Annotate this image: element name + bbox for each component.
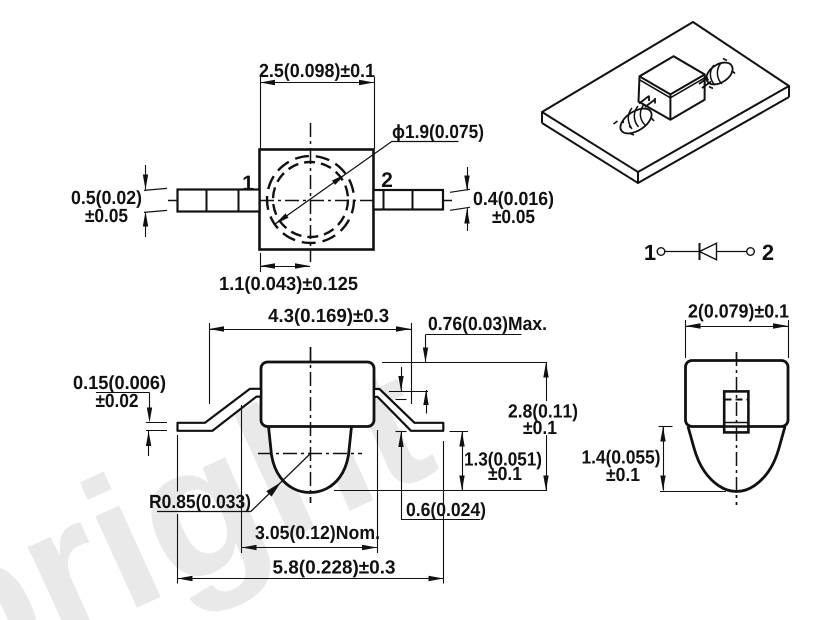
end view centerline redraw [736, 352, 738, 505]
dim 0.5 text [72, 190, 141, 208]
dim 2 extension lines [685, 320, 687, 358]
iso left solder pad [616, 104, 656, 139]
phi 1.9 leader underline [392, 141, 459, 143]
iso board corner verticals [542, 86, 789, 183]
dim 5.8 extension lines [177, 435, 179, 492]
schematic pin 2 label [763, 245, 774, 260]
iso LED body sides [639, 56, 705, 120]
dim 2.8 bottom arrow [543, 476, 548, 491]
body bottom line through lead [724, 425, 748, 427]
dim 4.3 text [268, 308, 388, 326]
iso board bottom edges [542, 97, 789, 183]
dim 5.8 left arrow [178, 576, 193, 581]
body top extension line [382, 362, 547, 364]
end view dome lens [688, 427, 785, 492]
dim 2.5 text [260, 63, 375, 81]
lead rect dashed line [725, 399, 749, 401]
dim 0.6 leader [401, 432, 403, 519]
left lead (pin 1) outline [178, 190, 260, 212]
dim 1.1 right arrow [295, 263, 310, 268]
dim 0.4 ticks [450, 189, 470, 192]
dim 0.5 lower arrow [143, 212, 148, 227]
side view right lead [374, 389, 443, 431]
dim 3.05 line [242, 547, 378, 549]
dim 0.15 ticks [146, 422, 167, 424]
diode cathode bar [699, 243, 701, 260]
iso left pad dots [622, 121, 624, 123]
dim 1.1 text [220, 276, 357, 294]
end view lead rectangle [724, 391, 748, 432]
dim 1.4 top arrow [660, 427, 665, 442]
dim 0.76 upper arrow [425, 335, 427, 363]
dim 0.15 leader [96, 392, 150, 394]
dim 2.8 top arrow [543, 363, 548, 378]
dim 2.8 line [546, 363, 548, 491]
dim 0.4 upper arrow [464, 176, 469, 191]
lead-top arrow [401, 367, 403, 391]
iso LED body front edge [669, 94, 671, 119]
dim 0.6 text [407, 502, 485, 520]
dim 0.5 arrows [145, 165, 147, 190]
dim 0.6 arrow [398, 432, 403, 447]
dim 3.05 extension lines [241, 405, 243, 553]
dim 3.05 text [255, 525, 378, 543]
dim 0.15 lower arrow [148, 431, 150, 456]
side view dome lens [269, 427, 352, 493]
dim 0.76 text [429, 316, 546, 334]
dim 1.1 left arrow [260, 263, 275, 268]
dim 0.15 upper arrow [147, 408, 152, 423]
iso board top face [542, 22, 789, 172]
dim 5.8 right arrow [429, 576, 444, 581]
end view vertical centerline [736, 352, 738, 505]
dim 3.05 right arrow [362, 545, 377, 550]
dim 2.8 text [505, 401, 581, 435]
dim 5.8 line [178, 578, 444, 580]
schematic pin 2 terminal circle [747, 248, 755, 256]
top view body square [260, 150, 374, 250]
dim 0.15 text [74, 375, 165, 393]
iso left pad stripes [628, 105, 645, 130]
side view dome horizontal centerline [258, 453, 362, 455]
dim 0.4 arrows [467, 167, 469, 191]
lead top extension line [389, 391, 428, 393]
iso right lead strip [699, 78, 711, 89]
dim 4.3 line [209, 329, 411, 331]
dim 1.3 bottom arrow [459, 476, 464, 491]
dim 4.3 extension lines [209, 323, 211, 404]
R0.85 leader line [251, 454, 311, 512]
iso right pad stripes [710, 63, 722, 85]
schematic wire left [665, 251, 699, 253]
dim 1.3 top arrow [459, 432, 464, 447]
side view vertical centerline redraw [310, 347, 312, 503]
dim 0.5 upper arrow [143, 175, 148, 190]
iso right solder pad [702, 58, 736, 89]
phi 1.9 label [393, 124, 483, 142]
right lead division lines [383, 190, 385, 210]
R0.85 arrow [266, 482, 281, 497]
dim 2.5 line [260, 82, 374, 84]
diode triangle [700, 243, 717, 260]
dim 1.4 bottom extension to dome [660, 491, 726, 493]
lens outer dashed circle [267, 156, 354, 243]
dim 0.4 lower arrow [464, 209, 469, 224]
dim 5.8 text [273, 560, 395, 578]
dim 1.1 extension line [260, 253, 262, 272]
dim 1.3 line [462, 432, 464, 491]
dim 2 right arrow [773, 323, 788, 328]
watermark "bright" [0, 365, 439, 620]
dim 2 text [689, 304, 789, 322]
dim 2 left arrow [686, 323, 701, 328]
dim 0.76 lower arrow [426, 390, 428, 414]
lead bottom tick right [450, 431, 469, 433]
left lead division lines [206, 190, 208, 212]
dim 1.1 line [260, 266, 310, 268]
dim 2.5 right arrow [359, 80, 374, 85]
end view body [686, 361, 789, 427]
top view vertical centerline [310, 123, 312, 265]
side view left lead [178, 389, 262, 431]
dim 2.5 left arrow [260, 80, 275, 85]
iso left lead strip [639, 96, 655, 108]
dim 1.4 bottom arrow [660, 476, 665, 491]
iso right pad corner marks [706, 59, 736, 89]
lead exit lower tick [396, 399, 407, 401]
dome bottom extension line [334, 490, 547, 492]
iso LED body top face [640, 56, 705, 94]
phi leader arrow lower-left [275, 213, 289, 224]
pin 1 label [244, 176, 254, 190]
top view horizontal centerline [168, 200, 452, 202]
dim 2.5 extension lines [260, 77, 262, 149]
pin 2 label [382, 172, 392, 187]
iso left pad corner marks [614, 104, 655, 136]
dim 2 line [686, 326, 789, 328]
lead rect inner line [725, 422, 749, 424]
lead bottom tick left [396, 431, 407, 433]
dim 0.4 text [474, 191, 553, 209]
R0.85 text [150, 494, 250, 512]
side view body [261, 362, 374, 427]
dim 3.05 left arrow [242, 545, 257, 550]
dim 1.4 top tick [659, 426, 673, 428]
centerline redraw over body [260, 200, 374, 202]
schematic pin 1 label [645, 245, 655, 260]
right lead (pin 2) outline [374, 190, 444, 210]
phi leader arrow upper-right [332, 174, 346, 185]
side view vertical centerline [310, 347, 312, 503]
dim 1.4 text [583, 450, 660, 468]
phi 1.9 leader line [275, 141, 392, 224]
dim 4.3 left arrow [209, 326, 224, 331]
dim 0.5 ticks [144, 188, 167, 190]
dim 4.3 right arrow [396, 326, 411, 331]
dim 1.4 line [663, 427, 665, 491]
schematic wire right [717, 251, 747, 253]
iso LED body cap step [640, 78, 705, 98]
dim 0.76 leader underline [426, 334, 522, 336]
schematic pin 1 terminal circle [657, 248, 665, 256]
R0.85 underline [157, 511, 251, 513]
lens inner dashed circle [273, 162, 348, 237]
dim 1.3 text [465, 452, 541, 470]
